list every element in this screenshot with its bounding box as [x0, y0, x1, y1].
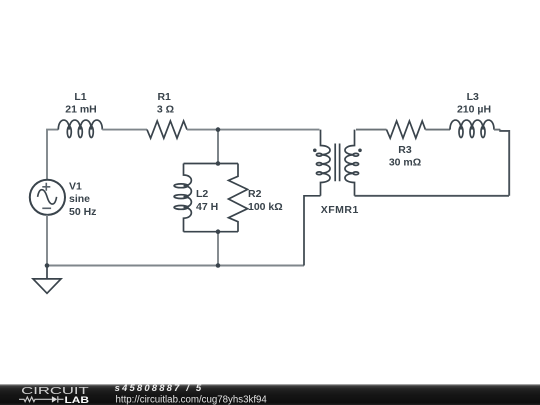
- L2 label: [196, 188, 208, 200]
- svg-text:http://circuitlab.com/cug78yhs: http://circuitlab.com/cug78yhs3kf94: [116, 395, 268, 405]
- wire: L3 lead: [494, 129, 500, 131]
- svg-text:100 kΩ: 100 kΩ: [248, 201, 283, 213]
- svg-text:LAB: LAB: [65, 395, 90, 405]
- L3 value label 210 uH: [457, 103, 491, 115]
- L1 label: [74, 91, 86, 103]
- wire: R3 to L3: [425, 129, 450, 131]
- inductor L2: [174, 164, 191, 232]
- R2 value label 100 kohm: [248, 201, 283, 213]
- footer bar: [0, 384, 540, 405]
- junction: L2/R2 top bus: [216, 161, 221, 166]
- XFMR1 label: [321, 204, 359, 216]
- V1 label: [69, 181, 82, 193]
- junction: L2/R2 bottom bus: [216, 229, 221, 234]
- CircuitLab logo text CIRCUIT: [21, 386, 90, 397]
- svg-text:3 Ω: 3 Ω: [157, 103, 174, 115]
- svg-text:R2: R2: [248, 188, 262, 200]
- V1 value label sine: [69, 193, 90, 205]
- resistor R2: [229, 164, 248, 232]
- svg-text:50 Hz: 50 Hz: [69, 206, 96, 218]
- svg-text:sine: sine: [69, 193, 90, 205]
- resistor R3: [387, 121, 426, 138]
- svg-text:21 mH: 21 mH: [65, 103, 97, 115]
- ground: [33, 266, 61, 294]
- resistor R1: [147, 121, 187, 138]
- R1 label: [157, 91, 171, 103]
- L2 value label 47 H: [196, 201, 218, 213]
- junction: top node at R1/L2 branch: [216, 127, 221, 132]
- wire: L1 to R1: [102, 129, 147, 131]
- R1 value label 3 ohm: [157, 103, 174, 115]
- L1 value label 21 mH: [65, 103, 97, 115]
- wire: node down to L2/R2 top bus: [217, 130, 219, 164]
- wire: top-left corner from V1 to L1: [47, 130, 58, 180]
- wire: bottom bus down to ground rail: [217, 232, 219, 266]
- voltage source V1: [30, 180, 65, 215]
- wire: secondary bottom rail: [355, 195, 510, 197]
- svg-text:L3: L3: [467, 91, 479, 103]
- CircuitLab logo text LAB: [65, 395, 90, 405]
- svg-text:47 H: 47 H: [196, 201, 218, 213]
- footer id label s45808887 / 5: [115, 383, 204, 394]
- svg-text:30 mΩ: 30 mΩ: [389, 156, 421, 168]
- inductor L3: [450, 120, 494, 137]
- wire: right corner down to secondary bottom: [500, 130, 509, 196]
- svg-text:XFMR1: XFMR1: [321, 204, 359, 216]
- svg-text:V1: V1: [69, 181, 82, 193]
- wire: XFMR1 secondary top to R3: [356, 129, 387, 131]
- L3 label: [467, 91, 479, 103]
- V1 value label 50 Hz: [69, 206, 96, 218]
- svg-text:R1: R1: [157, 91, 171, 103]
- wire: R1 to XFMR1 primary (passes node at x=218): [187, 129, 320, 131]
- svg-text:s45808887 / 5: s45808887 / 5: [115, 383, 204, 394]
- wire: V1 to ground rail: [46, 215, 48, 266]
- svg-text:210 µH: 210 µH: [457, 103, 491, 115]
- inductor L1: [58, 120, 102, 137]
- svg-text:L2: L2: [196, 188, 208, 200]
- svg-text:L1: L1: [74, 91, 86, 103]
- footer url label: [116, 395, 268, 405]
- svg-text:R3: R3: [398, 144, 412, 156]
- CircuitLab logo resistor-diode symbol: [19, 396, 64, 402]
- R3 value label 30 mohm: [389, 156, 421, 168]
- wire: XFMR1 primary bottom to ground rail: [304, 196, 321, 266]
- R2 label: [248, 188, 262, 200]
- junction: ground rail at ground symbol: [45, 263, 50, 268]
- wire: bottom bus of L2/R2: [184, 231, 239, 233]
- transformer XFMR1: [313, 130, 362, 196]
- wire: bottom ground rail: [47, 265, 304, 267]
- junction: ground rail at x=218: [216, 263, 221, 268]
- R3 label: [398, 144, 412, 156]
- wire: top bus of L2/R2: [184, 163, 239, 165]
